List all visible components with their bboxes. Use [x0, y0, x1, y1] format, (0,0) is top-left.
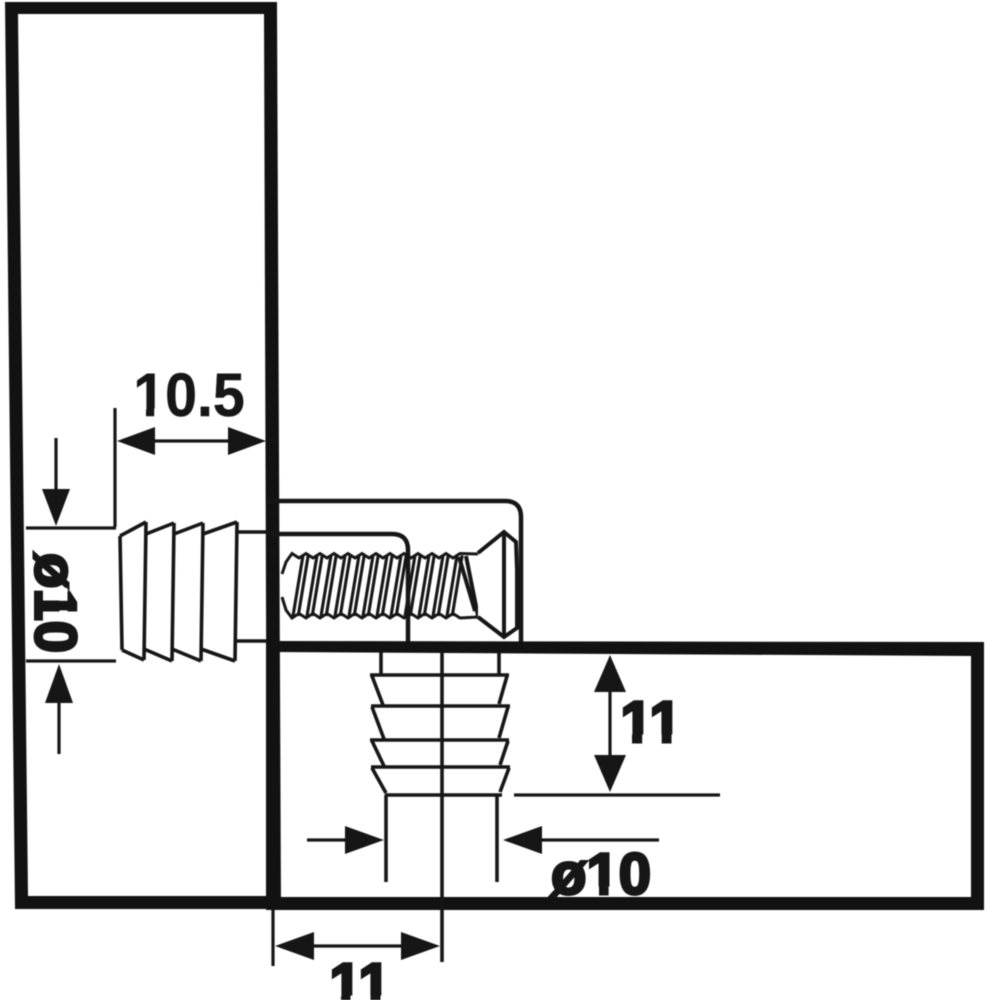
svg-text:ø10: ø10: [551, 842, 651, 907]
svg-text:11: 11: [329, 952, 390, 1000]
svg-text:ø10: ø10: [23, 553, 88, 653]
svg-text:10.5: 10.5: [133, 360, 245, 429]
svg-text:11: 11: [620, 690, 681, 755]
